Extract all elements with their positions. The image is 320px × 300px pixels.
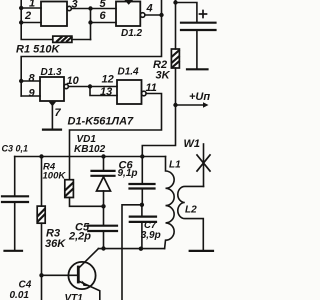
node junction pin2 xyxy=(19,20,23,24)
node junction 6 xyxy=(88,20,92,24)
svg-text:9: 9 xyxy=(29,88,36,100)
wire pin 4 output xyxy=(145,14,162,16)
wire +Un arrow xyxy=(176,104,204,106)
inductor L1 xyxy=(165,157,175,249)
gate D1.3 inversion bubble xyxy=(64,84,68,88)
wire R2 bottom xyxy=(142,68,175,157)
svg-text:D1.4: D1.4 xyxy=(118,67,140,78)
antenna W1 xyxy=(203,144,205,186)
svg-text:0.01: 0.01 xyxy=(10,290,30,300)
svg-text:36K: 36K xyxy=(45,238,66,250)
svg-text:C3 0,1: C3 0,1 xyxy=(2,144,29,154)
wire pin 10 output xyxy=(68,86,90,88)
node junction R3 xyxy=(39,154,43,158)
node junction C7 bottom xyxy=(139,247,143,251)
resistor R3 xyxy=(41,157,43,207)
inductor L2 xyxy=(178,186,204,250)
gate D1.4 inversion bubble xyxy=(142,91,147,96)
resistor R2 xyxy=(171,49,179,68)
ground bar capacitor xyxy=(187,68,208,70)
resistor R1 xyxy=(72,39,91,41)
node junction VD1 xyxy=(101,154,105,158)
plus sign xyxy=(200,13,207,15)
svg-text:R1 510K: R1 510K xyxy=(16,44,60,56)
svg-text:C4: C4 xyxy=(19,280,32,291)
svg-text:L1: L1 xyxy=(169,160,181,171)
node junction top xyxy=(173,0,177,4)
svg-text:5: 5 xyxy=(100,0,107,10)
wire pin 9 xyxy=(21,95,40,97)
node junction C6/C7 xyxy=(140,203,144,207)
node junction pin1 xyxy=(19,6,23,10)
gate D1.2 top mark xyxy=(125,0,134,5)
svg-text:L2: L2 xyxy=(185,205,197,216)
capacitor C6 xyxy=(141,157,143,184)
ground pin 7 xyxy=(51,104,53,129)
svg-text:D1-K561ЛА7: D1-K561ЛА7 xyxy=(68,116,135,128)
svg-text:4: 4 xyxy=(146,3,153,15)
svg-text:D1.3: D1.3 xyxy=(41,67,63,78)
node junction pin4 xyxy=(159,13,163,17)
wire pin 6 xyxy=(91,22,117,24)
capacitor C3 xyxy=(14,157,16,196)
svg-text:3: 3 xyxy=(72,0,78,11)
wire capacitor negative lead xyxy=(196,31,198,69)
node junction base xyxy=(39,273,43,277)
wire pin 8 xyxy=(21,80,40,82)
wire output branch xyxy=(122,205,142,300)
wire to capacitor xyxy=(176,3,197,22)
svg-text:1: 1 xyxy=(29,0,35,10)
svg-text:3K: 3K xyxy=(156,70,171,82)
capacitor C7 xyxy=(141,205,143,216)
wire pin 12 xyxy=(90,86,117,88)
svg-text:+Uп: +Uп xyxy=(189,91,210,103)
svg-text:13: 13 xyxy=(100,86,112,98)
transistor VT1 emitter xyxy=(78,281,100,300)
transistor VT1 circle xyxy=(68,262,95,289)
wire R4 bottom xyxy=(70,198,104,207)
node junction R4/C5 xyxy=(101,204,105,208)
wire base xyxy=(42,274,78,276)
transistor VT1 base bar xyxy=(77,267,80,282)
node junction C5 bottom xyxy=(101,246,105,250)
svg-text:8: 8 xyxy=(29,73,36,85)
varicap VD1 xyxy=(103,157,105,171)
wire pin 1 xyxy=(21,7,41,9)
gate D1.3 body xyxy=(40,77,64,101)
gate D1.2 inversion bubble xyxy=(140,13,145,18)
svg-text:VT1: VT1 xyxy=(65,293,84,300)
svg-text:D1.2: D1.2 xyxy=(121,28,143,39)
svg-text:3,9p: 3,9p xyxy=(141,230,161,241)
node junction C6 xyxy=(140,154,144,158)
svg-text:12: 12 xyxy=(102,74,114,86)
svg-text:11: 11 xyxy=(146,82,157,94)
svg-text:6: 6 xyxy=(100,10,107,22)
gate D1.4 body xyxy=(117,80,142,104)
svg-text:10: 10 xyxy=(67,75,80,87)
wire feedback vertical xyxy=(21,0,161,96)
gate D1.1 inversion bubble xyxy=(67,6,71,10)
node junction 3/5 xyxy=(88,6,92,10)
node junction 10/12 xyxy=(88,84,92,88)
wire vertical to R1 xyxy=(90,9,92,40)
wire bottom rail xyxy=(98,248,164,250)
resistor R4 xyxy=(65,180,74,198)
svg-text:9,1p: 9,1p xyxy=(118,168,138,179)
svg-text:2,2p: 2,2p xyxy=(68,231,91,243)
wire pin 3 output xyxy=(71,8,90,10)
svg-text:W1: W1 xyxy=(184,138,201,150)
node junction +Un xyxy=(173,103,177,107)
gate D1.1 body xyxy=(41,2,67,27)
wire pin 2 xyxy=(21,22,41,24)
ground bar L2 xyxy=(190,250,213,252)
wire R3 to base/C4 xyxy=(41,223,43,300)
ground bar C3 xyxy=(5,250,23,252)
gate D1.2 body xyxy=(116,2,140,27)
wire left input rail xyxy=(21,0,53,40)
svg-text:KB102: KB102 xyxy=(74,144,106,155)
ground pin 7 arrow xyxy=(49,102,57,107)
wire pin 11 output to R4 xyxy=(70,94,162,180)
capacitor C5 xyxy=(88,225,117,227)
wire bus A xyxy=(15,156,166,158)
node junction pin8 xyxy=(19,79,23,83)
capacitor C polarized plates xyxy=(181,22,216,24)
transistor VT1 collector xyxy=(79,249,99,269)
svg-text:2: 2 xyxy=(24,10,31,22)
wire +Un top rail xyxy=(175,0,177,49)
svg-text:100K: 100K xyxy=(43,171,67,182)
wire pin 13 xyxy=(90,87,117,96)
svg-text:7: 7 xyxy=(55,107,62,119)
wire pin 5 xyxy=(91,8,117,10)
